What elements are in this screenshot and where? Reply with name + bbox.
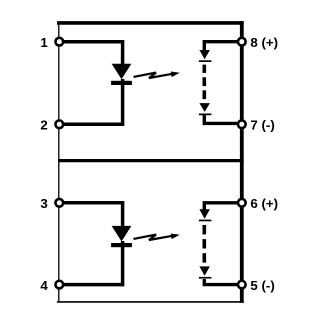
package outline: right border [240, 21, 244, 303]
channel divider line [58, 159, 244, 162]
wire: LED2 cathode to pin4 [62, 241, 123, 285]
pin 1 terminal circle [55, 38, 63, 46]
photodiode stack 1: diode 2 cathode bar [199, 114, 212, 116]
svg-text:3: 3 [40, 196, 47, 211]
wire: pin3 to LED2 anode [62, 203, 123, 227]
photodiode stack 2: diode 2 cathode bar [199, 277, 212, 279]
wire: photodiode stack 2 top to pin 6 [204, 203, 240, 210]
svg-text:8 (+): 8 (+) [250, 35, 278, 50]
svg-text:2: 2 [40, 118, 47, 133]
wire: photodiode stack 2 bottom to pin 5 [204, 279, 240, 285]
light arrow channel 2 [134, 234, 180, 241]
svg-text:7 (-): 7 (-) [250, 118, 274, 133]
wire: LED1 cathode to pin2 [62, 79, 123, 124]
photodiode stack 1: diode 2 triangle [199, 103, 210, 112]
pin 6 terminal circle [238, 199, 246, 207]
pin 2 terminal circle [55, 120, 63, 128]
pin 5 terminal circle [238, 281, 246, 289]
photodiode stack 2: diode 1 cathode bar [199, 220, 212, 222]
LED D2 triangle [112, 226, 132, 242]
package outline: left border [58, 24, 60, 302]
photodiode stack 1: diode 1 triangle [199, 50, 210, 59]
package outline: bottom border [57, 301, 244, 303]
wire: pin1 to LED1 anode [62, 42, 123, 65]
svg-text:1: 1 [40, 35, 48, 50]
wire: photodiode stack 1 bottom to pin 7 [204, 115, 240, 123]
pin 4 terminal circle [55, 281, 63, 289]
LED D1 cathode bar [111, 81, 132, 85]
pin 3 terminal circle [55, 199, 63, 207]
pin 8 terminal circle [238, 38, 246, 46]
LED D1 triangle [112, 64, 132, 80]
light arrow channel 1 [134, 72, 180, 79]
pin 7 terminal circle [238, 120, 246, 128]
svg-text:5 (-): 5 (-) [250, 278, 274, 293]
photodiode stack 2: dashed series segment [203, 225, 207, 263]
svg-text:4: 4 [40, 278, 48, 293]
LED D2 cathode bar [111, 243, 132, 247]
wire: photodiode stack 1 top to pin 8 [204, 42, 240, 51]
photodiode stack 1: diode 1 cathode bar [199, 60, 212, 62]
photodiode stack 2: diode 1 triangle [199, 209, 210, 218]
package outline: top border [57, 21, 244, 25]
photodiode stack 2: diode 2 triangle [199, 266, 210, 275]
svg-text:6 (+): 6 (+) [250, 196, 278, 211]
photodiode stack 1: dashed series segment [203, 65, 207, 100]
